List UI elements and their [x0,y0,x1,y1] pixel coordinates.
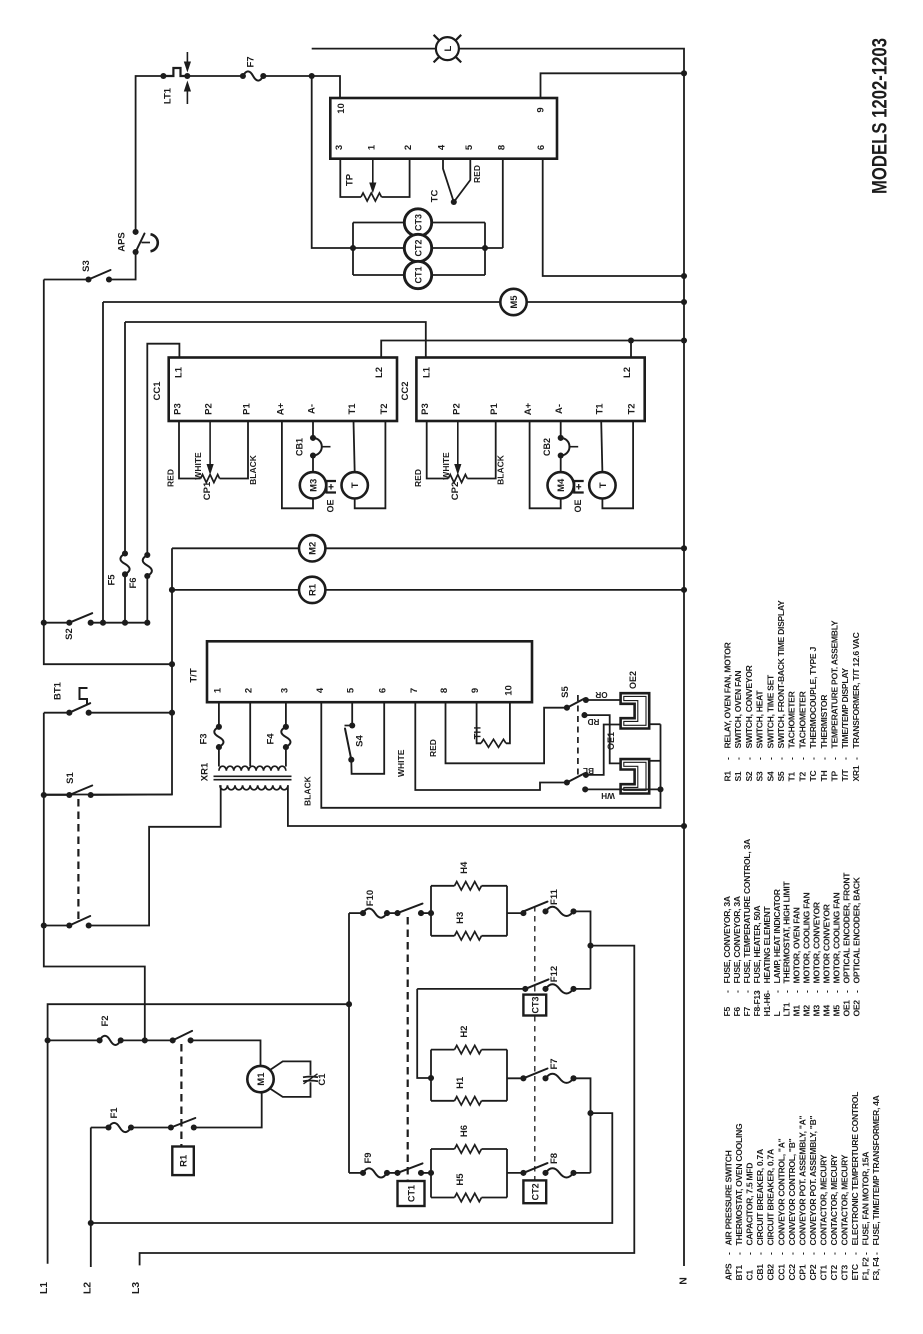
svg-text:ETC: ETC [850,1264,860,1280]
wire contact to motor M1 [191,1040,261,1066]
svg-text:THERMOSTAT, OVEN COOLING: THERMOSTAT, OVEN COOLING [734,1123,744,1245]
wire contact to H5/H6 block [421,1172,431,1174]
svg-text:-: - [797,1252,807,1255]
svg-text:CONVEYOR CONTROL, "B": CONVEYOR CONTROL, "B" [787,1138,797,1245]
linkage S1 (dashed) [77,799,79,921]
svg-text:T: T [350,482,361,488]
svg-text:SWITCH, TIME SET: SWITCH, TIME SET [765,674,775,749]
svg-text:R1: R1 [723,771,733,782]
svg-text:T: T [598,482,609,488]
svg-text:M2: M2 [802,1005,812,1017]
svg-text:T1: T1 [347,403,358,415]
svg-text:-: - [792,990,802,993]
svg-text:TRANSFORMER, T/T 12.6 VAC: TRANSFORMER, T/T 12.6 VAC [851,632,861,748]
svg-text:CT3: CT3 [840,1265,850,1281]
svg-text:-: - [797,757,807,760]
svg-text:L2: L2 [374,367,385,378]
svg-text:M1: M1 [256,1072,267,1086]
svg-text:-: - [782,990,792,993]
svg-text:OPTICAL ENCODER, BACK: OPTICAL ENCODER, BACK [851,876,861,983]
svg-text:-: - [787,757,797,760]
svg-text:APS: APS [117,232,128,252]
svg-text:-: - [776,1252,786,1255]
svg-text:F5: F5 [722,1007,732,1017]
wire S1 lower pole to XR1 secondary [89,788,221,926]
svg-text:-: - [818,1252,828,1255]
svg-text:OR: OR [595,690,607,699]
svg-text:1: 1 [212,687,223,693]
wire CC2 L2 drop [630,341,632,359]
svg-text:CIRCUIT BREAKER, 0.7A: CIRCUIT BREAKER, 0.7A [755,1149,765,1245]
contactor contact CT1 (heater A) [387,912,398,914]
svg-text:6: 6 [536,145,547,150]
svg-text:CT3: CT3 [531,996,541,1013]
svg-text:R1: R1 [179,1154,190,1167]
svg-text:TIME/TEMP DISPLAY: TIME/TEMP DISPLAY [840,668,850,749]
fuse F9 (heater) [349,1172,363,1174]
svg-text:-: - [787,1252,797,1255]
svg-text:OE: OE [326,499,336,512]
wire relay pin 8 to CT coils [502,159,504,248]
wire APS to S3 [109,252,136,280]
linkage M1 contact to R1 coil (dashed) [180,1044,182,1147]
wire APS riser [136,76,164,233]
svg-text:CT1: CT1 [407,1185,417,1202]
fuse F7 (heater) [546,1074,574,1083]
svg-text:ELECTRONIC TEMPERTURE CONTROL: ELECTRONIC TEMPERTURE CONTROL [850,1092,860,1246]
svg-text:-: - [830,757,840,760]
relay contact R1 pole [168,1124,174,1130]
motor M4 (conveyor) [560,456,562,473]
wire S3 to left rail [44,279,89,281]
svg-text:L: L [772,1012,782,1017]
svg-text:S4: S4 [355,734,366,746]
svg-text:H3: H3 [455,912,466,924]
svg-text:AIR PRESSURE SWITCH: AIR PRESSURE SWITCH [724,1150,734,1245]
svg-text:F12: F12 [549,966,560,982]
svg-text:3: 3 [334,145,345,150]
wire OE1 to common vertical [649,760,660,762]
svg-text:S4: S4 [765,771,775,781]
potentiometer CP2 (conveyor pot) [427,421,449,479]
linkage CT1 contacts (dashed) [407,917,409,1181]
svg-text:CC2: CC2 [787,1264,797,1281]
fuse F7 (temperature control) [243,71,263,80]
wire block output [507,1077,523,1079]
svg-text:F8-F13: F8-F13 [752,990,762,1016]
contactor contact CT2 (upper) [523,1069,547,1079]
contactor contact CT1 pole (M1 feed) [170,1037,176,1043]
svg-text:M3: M3 [812,1005,822,1017]
svg-text:OPTICAL ENCODER, FRONT: OPTICAL ENCODER, FRONT [841,872,851,984]
svg-text:MOTOR, CONVEYOR: MOTOR, CONVEYOR [812,901,822,983]
wire L2 riser [90,1128,92,1268]
tachometer T [354,421,355,472]
optical encoder OE2 (back) [621,693,650,728]
svg-text:APS: APS [724,1263,734,1280]
svg-text:S2: S2 [64,628,75,640]
wire CT2 coil to relay pin 8 [431,247,503,249]
svg-text:LAMP, HEAT INDICATOR: LAMP, HEAT INDICATOR [772,888,782,983]
svg-text:F3, F4: F3, F4 [871,1257,881,1281]
relay board (ETC electronic temperature control) [330,98,557,159]
relay coil R1 box [172,1147,194,1176]
svg-text:F5: F5 [107,574,118,586]
wire F8 to return [574,1172,591,1174]
heater block H2/H1 [430,1050,432,1101]
wire CC2 L1 feed line [125,322,426,358]
fuse F3 (time/temp transformer) [218,702,220,727]
svg-text:BLACK: BLACK [303,775,313,806]
fuse F8 (heater) [546,1168,574,1177]
svg-text:L1: L1 [421,366,432,378]
svg-text:CP1: CP1 [797,1264,807,1280]
wire lamp feed to CT2 coil [312,76,405,248]
svg-text:CB1: CB1 [755,1264,765,1281]
svg-text:CP2: CP2 [808,1264,818,1280]
switch S3 (heat) [85,276,91,282]
svg-text:FUSE, FAN MOTOR, 15A: FUSE, FAN MOTOR, 15A [861,1152,871,1246]
svg-text:M3: M3 [308,479,319,492]
wire BT1/S1 left feed [44,713,145,1041]
motor M3 (conveyor) [312,456,314,473]
svg-text:T2: T2 [797,772,807,782]
svg-text:TEMPERATURE POT. ASSEMBLY: TEMPERATURE POT. ASSEMBLY [830,620,840,748]
transformer XR1 (T/T 12.6 VAC) [218,747,220,766]
wire F2 to M1 contact [121,1039,173,1041]
svg-text:CAPACITOR, 7.5 MFD: CAPACITOR, 7.5 MFD [745,1163,755,1246]
fuse F2 (fan motor) [100,1036,121,1045]
svg-text:MOTOR, OVEN FAN: MOTOR, OVEN FAN [792,907,802,983]
fuse F6 (conveyor) riser / CC1 L1 feed [147,344,179,555]
contactor coil CT1 box [398,1181,425,1206]
linkage CT3/CT2 contacts (dashed) [534,906,536,1180]
wire block output [507,912,523,914]
fuse F1 (fan motor) [109,1123,132,1132]
wire N rail (neutral bus, right side) [312,49,684,1266]
svg-text:8: 8 [496,145,507,150]
motor M1 (oven fan) [247,1066,273,1092]
svg-text:THERMISTOR: THERMISTOR [819,694,829,749]
svg-text:M4: M4 [822,1005,832,1017]
svg-text:7: 7 [409,688,420,693]
wire S3 feed from BT1 chain [44,280,172,665]
wire R1 contact to M1 [194,1092,262,1127]
svg-text:FUSE, TIME/TEMP TRANSFORMER, 4: FUSE, TIME/TEMP TRANSFORMER, 4A [871,1095,881,1245]
svg-text:CC1: CC1 [776,1264,786,1281]
svg-text:RED: RED [472,165,482,183]
svg-text:CP2: CP2 [450,482,461,500]
svg-text:T2: T2 [379,403,390,414]
svg-text:-: - [776,757,786,760]
svg-text:H1: H1 [455,1076,466,1089]
svg-text:P3: P3 [420,403,431,415]
optical encoder OE pickup symbol [574,481,584,493]
svg-text:-: - [851,757,861,760]
svg-text:CONVEYOR CONTROL, "A": CONVEYOR CONTROL, "A" [776,1138,786,1245]
wire CC1 L2 / CC2 L2 to N rail [381,341,684,358]
wire relay pin 9 to N rail [541,73,685,98]
motor M5 (cooling fan) [500,289,526,315]
svg-text:TACHOMETER: TACHOMETER [787,690,797,748]
svg-text:OE2: OE2 [851,1000,861,1017]
wire CT coil right bracket [484,223,486,276]
svg-text:-: - [733,757,743,760]
svg-text:-: - [742,990,752,993]
svg-text:L1: L1 [174,366,185,378]
svg-text:S2: S2 [744,771,754,781]
svg-text:F7: F7 [246,56,257,67]
svg-text:SWITCH, FRONT-BACK TIME DISPLA: SWITCH, FRONT-BACK TIME DISPLAY [776,600,786,749]
svg-text:L1: L1 [38,1282,50,1294]
svg-text:-: - [851,990,861,993]
svg-text:-: - [802,990,812,993]
wire XR1 secondary right to N rail [288,785,684,826]
svg-text:OE: OE [573,499,583,512]
svg-text:RELAY, OVEN FAN, MOTOR: RELAY, OVEN FAN, MOTOR [723,641,733,748]
svg-text:-: - [752,990,762,993]
svg-text:L2: L2 [622,367,633,378]
svg-text:TH: TH [819,771,829,782]
potentiometer TP (temperature pot) [340,159,361,197]
svg-text:9: 9 [536,107,547,112]
svg-text:-: - [772,990,782,993]
wire BT1 to control vertical [89,712,172,714]
time/temp display board T/T [207,641,532,702]
svg-text:M5: M5 [509,295,520,309]
svg-text:CONTACTOR, MECURY: CONTACTOR, MECURY [840,1154,850,1245]
svg-text:F11: F11 [549,888,560,905]
svg-text:F8: F8 [549,1153,560,1164]
svg-text:CT2: CT2 [829,1265,839,1281]
svg-text:OE2: OE2 [628,671,638,689]
svg-text:M5: M5 [831,1005,841,1017]
potentiometer CP1 (conveyor pot) [179,421,201,479]
switch S4 (time set) [351,702,353,725]
svg-text:-: - [819,757,829,760]
switch S1 lower pole [44,925,70,927]
contactor contact CT3 (lower) [417,988,525,990]
svg-text:F6: F6 [732,1007,742,1017]
svg-text:RED: RED [428,739,438,757]
svg-text:2: 2 [403,145,414,150]
svg-text:-: - [744,757,754,760]
thermocouple TC (type J) [443,159,454,202]
svg-text:THERMOSTAT, HIGH LIMIT: THERMOSTAT, HIGH LIMIT [782,881,792,984]
fuse F10 (heater) [349,912,363,914]
contactor coil CT3 [404,209,431,236]
thermostat BT1 (oven cooling) [44,712,70,714]
svg-text:-: - [765,757,775,760]
svg-text:-: - [812,990,822,993]
optical encoder OE1 (front) [621,759,650,793]
svg-text:6: 6 [378,688,389,693]
svg-text:-: - [745,1252,755,1255]
svg-text:SWITCH, HEAT: SWITCH, HEAT [755,690,765,749]
linkage S5 (dashed) [577,695,579,779]
relay R1 coil (oven fan) [299,577,325,603]
svg-text:10: 10 [336,103,347,114]
thermostat LT1 (high-limit, step contact) [163,68,187,76]
svg-text:RED: RED [166,469,176,487]
svg-text:CT2: CT2 [413,239,423,256]
contactor coil CT3 box [523,995,546,1016]
svg-text:P2: P2 [451,403,462,415]
svg-text:MOTOR, COOLING FAN: MOTOR, COOLING FAN [831,893,841,984]
wire T/T pin 8 RED to S5 [446,702,567,763]
wire F7 to return [574,1078,591,1173]
svg-text:BLACK: BLACK [496,454,506,485]
svg-text:-: - [724,1252,734,1255]
contactor contact CT1 (heater B) [387,1172,398,1174]
svg-text:-: - [722,990,732,993]
svg-text:FUSE, CONVEYOR, 3A: FUSE, CONVEYOR, 3A [722,896,732,983]
svg-text:CB2: CB2 [766,1264,776,1281]
wire S5 RD throw to OE1 [585,715,621,763]
svg-text:-: - [732,990,742,993]
svg-text:BT1: BT1 [734,1265,744,1281]
svg-text:SWITCH, OVEN FAN: SWITCH, OVEN FAN [733,671,743,749]
wire LT1 to F7 [187,75,243,77]
svg-text:FUSE, TEMPERATURE CONTROL, 3A: FUSE, TEMPERATURE CONTROL, 3A [742,839,752,983]
svg-text:RED: RED [413,469,423,487]
wire OE2 to common vertical [649,723,660,725]
svg-text:-: - [861,1252,871,1255]
svg-text:-: - [871,1252,881,1255]
svg-text:THERMOCOUPLE, TYPE J: THERMOCOUPLE, TYPE J [808,647,818,749]
svg-text:TP: TP [345,173,356,186]
fuse F5 (conveyor) riser [124,322,126,554]
fuse F12 (heater) [546,984,574,993]
svg-text:FUSE, HEATER, 50A: FUSE, HEATER, 50A [752,906,762,984]
svg-text:N: N [678,1277,690,1285]
svg-text:WHITE: WHITE [396,749,406,777]
svg-text:F10: F10 [365,890,376,906]
tachometer T [601,421,602,472]
wire S5 OR throw to OE2 [586,699,621,701]
wire A+ to M3 [282,421,313,508]
switch S2 (conveyor) [44,622,70,624]
svg-text:T/T: T/T [840,768,850,781]
svg-text:-: - [829,1252,839,1255]
wire S5 BL throw to OE2 lower arm [586,725,621,775]
svg-text:FUSE, CONVEYOR, 3A: FUSE, CONVEYOR, 3A [732,896,742,983]
wire XR1 secondary left lead [220,785,222,788]
svg-text:-: - [723,757,733,760]
svg-text:A+: A+ [275,402,286,415]
wire T/T pin 4 BLACK [321,702,660,808]
svg-text:L3: L3 [130,1282,142,1294]
svg-text:F3: F3 [199,733,210,744]
wire F12 row feed to H1/H2 [417,989,431,1078]
fuse F11 (heater) [546,907,574,916]
svg-text:TC: TC [808,771,818,782]
switch S5 upper pole (front-back time display) [564,705,570,711]
svg-text:CONVEYOR POT. ASSEMBLY, "A": CONVEYOR POT. ASSEMBLY, "A" [797,1115,807,1245]
svg-text:TACHOMETER: TACHOMETER [797,690,807,748]
svg-text:SWITCH, CONVEYOR: SWITCH, CONVEYOR [744,664,754,748]
contactor contact CT2 (lower) [523,1163,547,1173]
svg-text:LT1: LT1 [782,1002,792,1016]
svg-text:T1: T1 [787,772,797,782]
svg-text:CT1: CT1 [818,1265,828,1281]
capacitor C1 (7.5 MFD) [270,1061,311,1075]
wire F12 to return [574,988,591,990]
wire T2 to tachometer [602,421,633,508]
svg-text:-: - [808,1252,818,1255]
wire S2 to fuse risers [91,622,148,624]
wire S4 to T/T pin 6 [351,702,384,774]
svg-text:5: 5 [464,144,475,150]
svg-text:-: - [822,990,832,993]
svg-text:LT1: LT1 [163,87,174,104]
svg-text:BT1: BT1 [53,681,64,700]
svg-text:T2: T2 [627,403,638,414]
svg-text:-: - [755,757,765,760]
motor M2 (cooling fan) [299,535,325,561]
svg-text:T1: T1 [595,403,606,415]
contactor contact CT3 (upper) [523,902,547,912]
contactor coil CT1 [404,261,431,288]
wire relay pin 6 to N rail [543,159,684,276]
circuit breaker CB2 [560,421,562,438]
svg-text:CB1: CB1 [295,438,305,456]
wire F7 to relay board pin 10 [263,76,340,98]
svg-text:CB2: CB2 [542,438,552,456]
svg-text:-: - [850,1252,860,1255]
svg-text:F7: F7 [742,1007,752,1017]
svg-text:-: - [734,1252,744,1255]
heater block H4/H3 [430,886,432,936]
svg-text:CIRCUIT BREAKER, 0.7A: CIRCUIT BREAKER, 0.7A [766,1149,776,1245]
svg-text:A-: A- [554,404,565,414]
svg-text:8: 8 [439,688,450,693]
svg-text:-: - [841,990,851,993]
svg-text:C1: C1 [745,1270,755,1281]
conveyor control board CC2 [416,358,644,422]
svg-text:WHITE: WHITE [441,452,451,480]
wire A+ to M4 [530,421,561,508]
svg-text:CC1: CC1 [152,381,163,401]
wire F1 row from L2 [91,1127,109,1129]
svg-text:CONVEYOR POT. ASSEMBLY, "B": CONVEYOR POT. ASSEMBLY, "B" [808,1115,818,1245]
wire F1 to R1 contact [131,1127,171,1129]
svg-text:P2: P2 [204,403,215,415]
switch S1 (oven fan) [44,794,70,796]
svg-text:MOTOR, COOLING FAN: MOTOR, COOLING FAN [802,893,812,984]
svg-text:4: 4 [315,687,326,693]
svg-text:MOTOR CONVEYOR: MOTOR CONVEYOR [822,903,832,983]
svg-text:P1: P1 [489,402,500,414]
svg-text:CT2: CT2 [531,1183,541,1200]
svg-text:XR1: XR1 [851,765,861,781]
svg-text:CC2: CC2 [400,381,411,400]
circuit breaker CB1 [312,421,314,438]
wire L2 branch to F7/F8 return [91,1113,613,1223]
svg-text:M1: M1 [792,1005,802,1017]
thermistor TH on T/T pins 9-10 [477,702,481,743]
svg-text:CONTACTOR, MECURY: CONTACTOR, MECURY [818,1154,828,1245]
svg-text:-: - [840,1252,850,1255]
svg-text:OE1: OE1 [606,732,616,750]
wire T2 to tachometer [355,421,386,508]
svg-text:F4: F4 [266,733,277,745]
svg-text:-: - [766,1252,776,1255]
svg-text:-: - [755,1252,765,1255]
svg-text:R1: R1 [308,583,319,596]
svg-text:TP: TP [830,771,840,782]
svg-text:9: 9 [470,688,481,693]
